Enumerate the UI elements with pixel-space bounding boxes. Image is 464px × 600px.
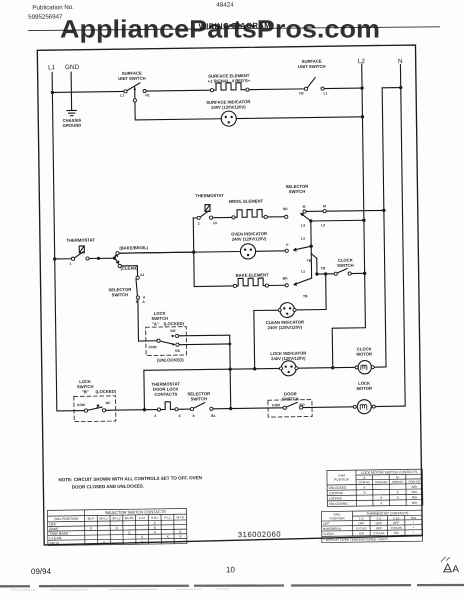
contact lock A COM (157, 339, 160, 342)
contact P (285, 249, 288, 252)
wire clean contact to corner (121, 265, 137, 267)
svg-text:OFF: OFF (358, 521, 364, 525)
svg-text:UNIT SWITCH: UNIT SWITCH (118, 76, 146, 81)
svg-text:L1: L1 (120, 93, 124, 97)
contact clean (118, 264, 121, 267)
svg-text:N/A: N/A (412, 490, 418, 494)
ground chassis symbol (67, 110, 77, 115)
svg-text:BROIL ELEMENT: BROIL ELEMENT (229, 198, 264, 203)
thermostat OVEN flag (205, 205, 210, 212)
svg-text:MOTOR: MOTOR (356, 386, 372, 391)
contact broil right (264, 215, 267, 218)
wire L2 vertical bus (362, 64, 366, 328)
svg-text:TIME BAKE: TIME BAKE (49, 532, 69, 536)
contact lock A NO (175, 334, 178, 337)
wire element to switch2 (249, 88, 305, 91)
table selector switch contacts (47, 508, 186, 545)
contact clock switch left (334, 272, 337, 275)
contact selector lower right (210, 407, 213, 410)
clock switch arm (337, 268, 347, 273)
junction and contact markers (51, 86, 407, 413)
wire lock chain drop (230, 335, 231, 408)
svg-text:M: M (303, 205, 306, 209)
wire L1 corner into lower bus (57, 410, 86, 412)
junction clean riser top (324, 272, 327, 275)
junction oven drop bake-broil row (192, 250, 195, 253)
wire oven indicator to P (256, 250, 286, 252)
svg-text:BROIL: BROIL (49, 542, 60, 546)
svg-text:L3: L3 (301, 237, 305, 241)
wire switch1 drop (134, 87, 136, 120)
svg-text:POSITION: POSITION (334, 477, 349, 481)
svg-text:1-3: 1-3 (376, 516, 381, 520)
svg-text:COM-NC: COM-NC (392, 480, 404, 484)
svg-text:N/A: N/A (412, 485, 418, 489)
thermostat OVEN left stub (193, 217, 197, 219)
lock motor winding (360, 404, 367, 409)
thermostat left arm (74, 252, 83, 258)
svg-text:CYCLES: CYCLES (356, 526, 367, 530)
svg-text:GND: GND (65, 64, 80, 71)
wire selector bus vertical (310, 221, 313, 278)
junction clock feed M row (382, 209, 385, 212)
svg-text:"B": "B" (82, 389, 89, 394)
wiper arm up to bake-broil contact (114, 254, 117, 258)
wire L2 end to lock riser (332, 327, 365, 329)
contact clean indicator left (278, 309, 281, 312)
svg-text:COM-NO: COM-NO (375, 480, 388, 484)
dashed box lock switch A (146, 327, 187, 356)
svg-text:BAKE/BROIL: BAKE/BROIL (323, 527, 342, 531)
svg-text:240V (120V/120V): 240V (120V/120V) (271, 356, 306, 361)
svg-text:COM-NO: COM-NO (408, 479, 421, 483)
svg-text:H1: H1 (145, 93, 150, 97)
wiper arm down to clean contact (114, 258, 118, 263)
contact door switch COM (283, 406, 286, 409)
contact M right (323, 210, 326, 213)
junction L2 clock row (363, 272, 366, 275)
wire lock indicator row (144, 368, 280, 370)
svg-text:48424: 48424 (216, 1, 234, 8)
svg-text:SWITCH: SWITCH (191, 396, 208, 401)
junction lock row x250 (253, 367, 256, 370)
svg-text:CYCLES: CYCLES (391, 526, 402, 530)
svg-text:SWITCH: SWITCH (337, 263, 354, 268)
junction thermostat row mid (97, 257, 100, 260)
wire L1 vertical bus (52, 72, 57, 411)
wire door switch to lock motor (303, 406, 354, 409)
resistor surface element (213, 83, 246, 90)
lamp LOCK INDICATOR (281, 361, 296, 376)
svg-text:GROUND: GROUND (63, 123, 82, 128)
svg-text:THERMOSTAT CONTACTS: THERMOSTAT CONTACTS (366, 511, 409, 516)
selector lower arm (193, 403, 205, 409)
svg-text:8: 8 (193, 414, 195, 418)
contact element1 right (246, 88, 249, 91)
wire N branch top (382, 87, 401, 89)
wire lock A NO exit (179, 334, 230, 337)
lamp SURFACE INDICATOR (221, 111, 236, 126)
svg-text:B-B1: B-B1 (151, 516, 158, 520)
dashed box door switch (268, 400, 312, 418)
switch SURFACE UNIT SWITCH 2 arm (307, 77, 315, 87)
selector bus bottom arrow to BK (294, 278, 312, 285)
svg-text:4: 4 (179, 414, 181, 418)
svg-text:SELECTOR SWITCH CONTACTS: SELECTOR SWITCH CONTACTS (105, 509, 167, 515)
svg-text:MOTOR: MOTOR (356, 351, 372, 356)
svg-text:N/A: N/A (412, 501, 418, 505)
svg-text:(CLEAN): (CLEAN) (120, 266, 138, 271)
contact clean indicator right (293, 308, 296, 311)
contact lock A NC (176, 343, 179, 346)
svg-text:240V (120V/120V): 240V (120V/120V) (232, 236, 267, 241)
junction lock A NC join (228, 342, 231, 345)
junction wiper pivot (113, 257, 116, 260)
junction lock row x225 (228, 367, 231, 370)
junction L2 top (360, 86, 363, 89)
svg-text:COM-NC: COM-NC (359, 480, 371, 484)
table thermostat contacts (321, 510, 422, 542)
svg-text:H2: H2 (299, 91, 304, 95)
svg-text:10: 10 (226, 565, 236, 574)
svg-text:LOCK MOTOR SWITCH CONTACTS: LOCK MOTOR SWITCH CONTACTS (361, 470, 418, 475)
svg-text:DOOR CLOSED AND UNLOCKED.: DOOR CLOSED AND UNLOCKED. (72, 484, 144, 490)
junction L2 indicator row (361, 115, 364, 118)
wire clock feed vertical from N branch (382, 88, 386, 367)
svg-text:UNIT SWITCH: UNIT SWITCH (298, 64, 326, 69)
wire bake element to BK (268, 284, 285, 286)
contact broil left (232, 216, 235, 219)
header rule (28, 25, 439, 33)
wire lower bus lock B to thermostat contacts (106, 409, 158, 412)
lamp CLEAN INDICATOR (280, 303, 295, 318)
svg-text:(BAKE/BROIL): (BAKE/BROIL) (119, 245, 149, 250)
svg-text:CYCLES: CYCLES (373, 531, 384, 535)
svg-text:NC: NC (106, 401, 112, 405)
wire to selector contacts (178, 408, 190, 410)
door switch arm (286, 402, 297, 407)
wire A down to lock switch A (137, 299, 140, 341)
svg-text:240V (120V/120V): 240V (120V/120V) (268, 325, 303, 330)
motor LOCK MOTOR (357, 400, 371, 414)
svg-text:AppliancePartsPros.com: AppliancePartsPros.com (60, 16, 380, 44)
svg-text:LOCKING: LOCKING (329, 491, 344, 495)
svg-text:NO: NO (170, 329, 176, 333)
svg-text:2-13: 2-13 (393, 516, 400, 520)
bottom scan edge band (0, 585, 464, 586)
junction TB (315, 272, 318, 275)
svg-text:P-L2: P-L2 (164, 515, 171, 519)
contact BK (285, 284, 288, 287)
contact clock motor right (371, 366, 374, 369)
svg-text:L3: L3 (321, 223, 325, 227)
lamp OVEN INDICATOR (240, 244, 255, 259)
wire L3 row bus to L2 (311, 219, 364, 222)
lock switch A NO arrow (171, 335, 175, 338)
contact thermostat left 2 (86, 257, 89, 260)
svg-text:TB: TB (321, 266, 326, 270)
tiny pin labels (67, 91, 332, 420)
svg-text:ON: ON (359, 531, 364, 535)
svg-text:COM: COM (77, 403, 85, 407)
thermostat door lock contact bump (160, 402, 175, 410)
svg-text:CLEAN: CLEAN (49, 536, 61, 540)
contact door lock therm right (175, 408, 178, 411)
svg-text:1-2: 1-2 (359, 517, 364, 521)
svg-text:COM: COM (148, 345, 156, 349)
svg-text:L1: L1 (323, 91, 327, 95)
junction L1 top (51, 91, 54, 94)
svg-text:OFF: OFF (376, 526, 382, 530)
junction N branch (399, 86, 402, 89)
svg-text:BK-P: BK-P (88, 517, 95, 521)
svg-text:OFF: OFF (393, 521, 399, 525)
svg-text:BR-L2: BR-L2 (100, 516, 109, 520)
wire indicator row right to L2 (236, 117, 362, 119)
contact lock B COM (84, 409, 87, 412)
svg-text:TB: TB (307, 259, 312, 263)
contact clock switch right (348, 272, 351, 275)
svg-text:POSITION: POSITION (330, 516, 345, 520)
wire switch1 to element (146, 89, 210, 92)
svg-text:(LOCKED): (LOCKED) (95, 389, 116, 394)
svg-text:A1: A1 (140, 273, 145, 277)
wire TB stub from bus (311, 254, 316, 259)
contact oven thermostat 2 (197, 216, 200, 219)
svg-text:A-A1: A-A1 (139, 516, 146, 520)
svg-text:SWITCH: SWITCH (289, 189, 306, 194)
lock switch A arm COM-NC (160, 341, 173, 344)
contact switch1 left (124, 90, 127, 93)
junction L1 thermostat row (53, 257, 56, 260)
lamp dots lock indicator (285, 365, 287, 367)
contact clock motor left (355, 366, 358, 369)
wire left thermostat row (55, 258, 72, 260)
svg-text:316002060: 316002060 (238, 530, 282, 540)
svg-text:NO: NO (300, 403, 306, 407)
wire clean indicator riser to clock row (325, 274, 327, 310)
contact A (136, 296, 139, 299)
clock motor winding (361, 365, 367, 370)
lamp dots surface indicator (225, 115, 293, 374)
svg-text:2: 2 (198, 222, 200, 226)
svg-text:BK: BK (283, 277, 289, 281)
contact door switch NO (299, 406, 302, 409)
wire lock riser (331, 328, 334, 367)
selector wiper SR to M bus (301, 213, 311, 221)
svg-text:240V (120V/120V): 240V (120V/120V) (211, 104, 246, 109)
svg-text:SWITCH: SWITCH (112, 292, 129, 297)
svg-text:A: A (452, 564, 459, 575)
svg-text:M: M (323, 204, 326, 208)
wire into COM of lock switch A (138, 340, 157, 342)
contact A1 (136, 276, 139, 279)
svg-text:BA-TB: BA-TB (125, 516, 134, 520)
junction L2 L3 row (362, 219, 365, 222)
svg-text:M-TB: M-TB (177, 515, 184, 519)
contact SR (285, 215, 288, 218)
resistor bake element (236, 278, 265, 286)
svg-text:BAKE ELEMENT: BAKE ELEMENT (236, 272, 270, 277)
svg-text:DIAL POSITION: DIAL POSITION (54, 517, 79, 521)
resistor broil element (235, 209, 264, 217)
wire clock switch row (317, 273, 334, 275)
contact lock B NC (102, 409, 105, 412)
wire thermostat to wiper (89, 257, 114, 259)
contact door lock therm left (157, 408, 160, 411)
svg-text:OFF: OFF (49, 523, 57, 527)
wire lock motor to N (375, 405, 405, 407)
svg-text:+1 SIGNAL, 4 RED'S+: +1 SIGNAL, 4 RED'S+ (208, 78, 251, 84)
wire riser to clean indicator (294, 308, 326, 310)
svg-text:OFF: OFF (323, 522, 329, 526)
contact switch2 right (321, 87, 324, 90)
selector switch arm A1 to A (136, 279, 137, 296)
wire corner down to A1 (136, 266, 138, 276)
thermostat left flag (79, 246, 84, 253)
svg-text:N/A: N/A (412, 495, 418, 499)
wire clock switch to L2 (351, 272, 364, 274)
contact oven thermostat 13 (209, 216, 212, 219)
svg-text:3: 3 (154, 414, 156, 418)
svg-text:Publication No.: Publication No. (32, 4, 74, 12)
svg-text:13: 13 (213, 221, 217, 225)
svg-text:SWITCH: SWITCH (282, 396, 299, 401)
svg-text:BAKE: BAKE (49, 527, 59, 531)
svg-text:UNLOCKING: UNLOCKING (329, 502, 349, 506)
svg-text:L3: L3 (301, 224, 305, 228)
svg-text:BK-L2: BK-L2 (112, 516, 120, 520)
dashed box lock switch B (74, 396, 116, 422)
svg-text:LOCKED: LOCKED (329, 496, 343, 500)
lamp dots clean indicator (283, 307, 285, 309)
wire GND drop (70, 72, 73, 110)
contact thermostat left 1 (71, 257, 74, 260)
wire TB drop (316, 258, 318, 274)
svg-text:1: 1 (70, 262, 72, 266)
wire N vertical bus (400, 64, 405, 406)
svg-text:"A": "A" (152, 321, 159, 326)
wire clock motor to clock feed (371, 366, 386, 368)
contact switch1 drop (133, 99, 136, 102)
motor CLOCK MOTOR (358, 360, 372, 374)
wire bake row (194, 285, 233, 288)
wire clean indicator left (254, 309, 280, 311)
wire M row (306, 210, 384, 211)
junction bus P (309, 244, 312, 247)
contact bake-broil (116, 252, 119, 255)
wire oven thermostat drop (192, 218, 195, 287)
junction bus top (309, 219, 312, 222)
switch SURFACE UNIT SWITCH 1 arm (127, 83, 140, 91)
lock switch B arm (87, 407, 102, 410)
wire top row L1 to switch1 (52, 90, 124, 93)
svg-text:NC: NC (175, 349, 181, 353)
wire broil element to SR contact (267, 216, 284, 218)
contact lock motor left (353, 405, 356, 408)
svg-text:(LOCKED): (LOCKED) (164, 321, 185, 326)
contact lock motor right (372, 405, 375, 408)
wire bake-broil row (119, 252, 192, 253)
contact bake right (265, 284, 268, 287)
svg-text:THERMOSTAT: THERMOSTAT (66, 237, 95, 242)
svg-text:B: B (396, 475, 398, 479)
contact element1 left (210, 89, 213, 92)
wire lock indicator row left riser (143, 370, 146, 409)
svg-text:SWITCH: SWITCH (151, 316, 168, 321)
svg-text:5995256947: 5995256947 (28, 13, 63, 20)
junction lock row riser (331, 366, 334, 369)
contact switch1 right (143, 89, 146, 92)
selector wiper to P contact (294, 246, 312, 251)
svg-text:UNLOCKED: UNLOCKED (329, 486, 347, 490)
svg-text:OFF: OFF (376, 521, 382, 525)
wire indicator row left (135, 119, 221, 120)
wire lock indicator to clock motor (296, 366, 358, 369)
schematic frame border (37, 45, 422, 545)
svg-text:L1: L1 (301, 269, 305, 273)
svg-text:09/94: 09/94 (31, 567, 52, 576)
svg-text:B1: B1 (211, 414, 216, 418)
contact switch2 left (304, 87, 307, 90)
wire oven thermostat to broil element (213, 216, 232, 218)
thermostat OVEN arm (200, 211, 209, 217)
wire lock switch A exit (179, 343, 230, 346)
lamp dots oven indicator (244, 249, 246, 251)
junction lower bus x225 (229, 407, 232, 410)
wire selector to door switch (213, 407, 283, 410)
wire switch2 to L2 (324, 87, 362, 90)
wire clean drop to lock row (253, 311, 256, 369)
contact bake left (233, 284, 236, 287)
contact M left (303, 210, 306, 213)
wire oven indicator row (119, 251, 239, 253)
handwritten revision mark triangle-A (444, 564, 452, 572)
svg-text:CLEAN: CLEAN (323, 532, 333, 536)
contact lock indicator right (295, 367, 298, 370)
junction lower bus x139 (143, 408, 146, 411)
svg-text:(UNLOCKED): (UNLOCKED) (157, 357, 184, 362)
svg-text:COM: COM (272, 403, 280, 407)
svg-text:L1: L1 (48, 64, 56, 71)
svg-text:CONTACTS: CONTACTS (154, 392, 177, 397)
svg-text:THERMOSTAT: THERMOSTAT (195, 193, 224, 198)
table lock motor switch contacts (327, 469, 423, 506)
contact selector lower left (190, 407, 193, 410)
svg-text:SR: SR (283, 207, 288, 211)
contact lock indicator left (279, 367, 282, 370)
svg-text:TB: TB (303, 294, 308, 298)
